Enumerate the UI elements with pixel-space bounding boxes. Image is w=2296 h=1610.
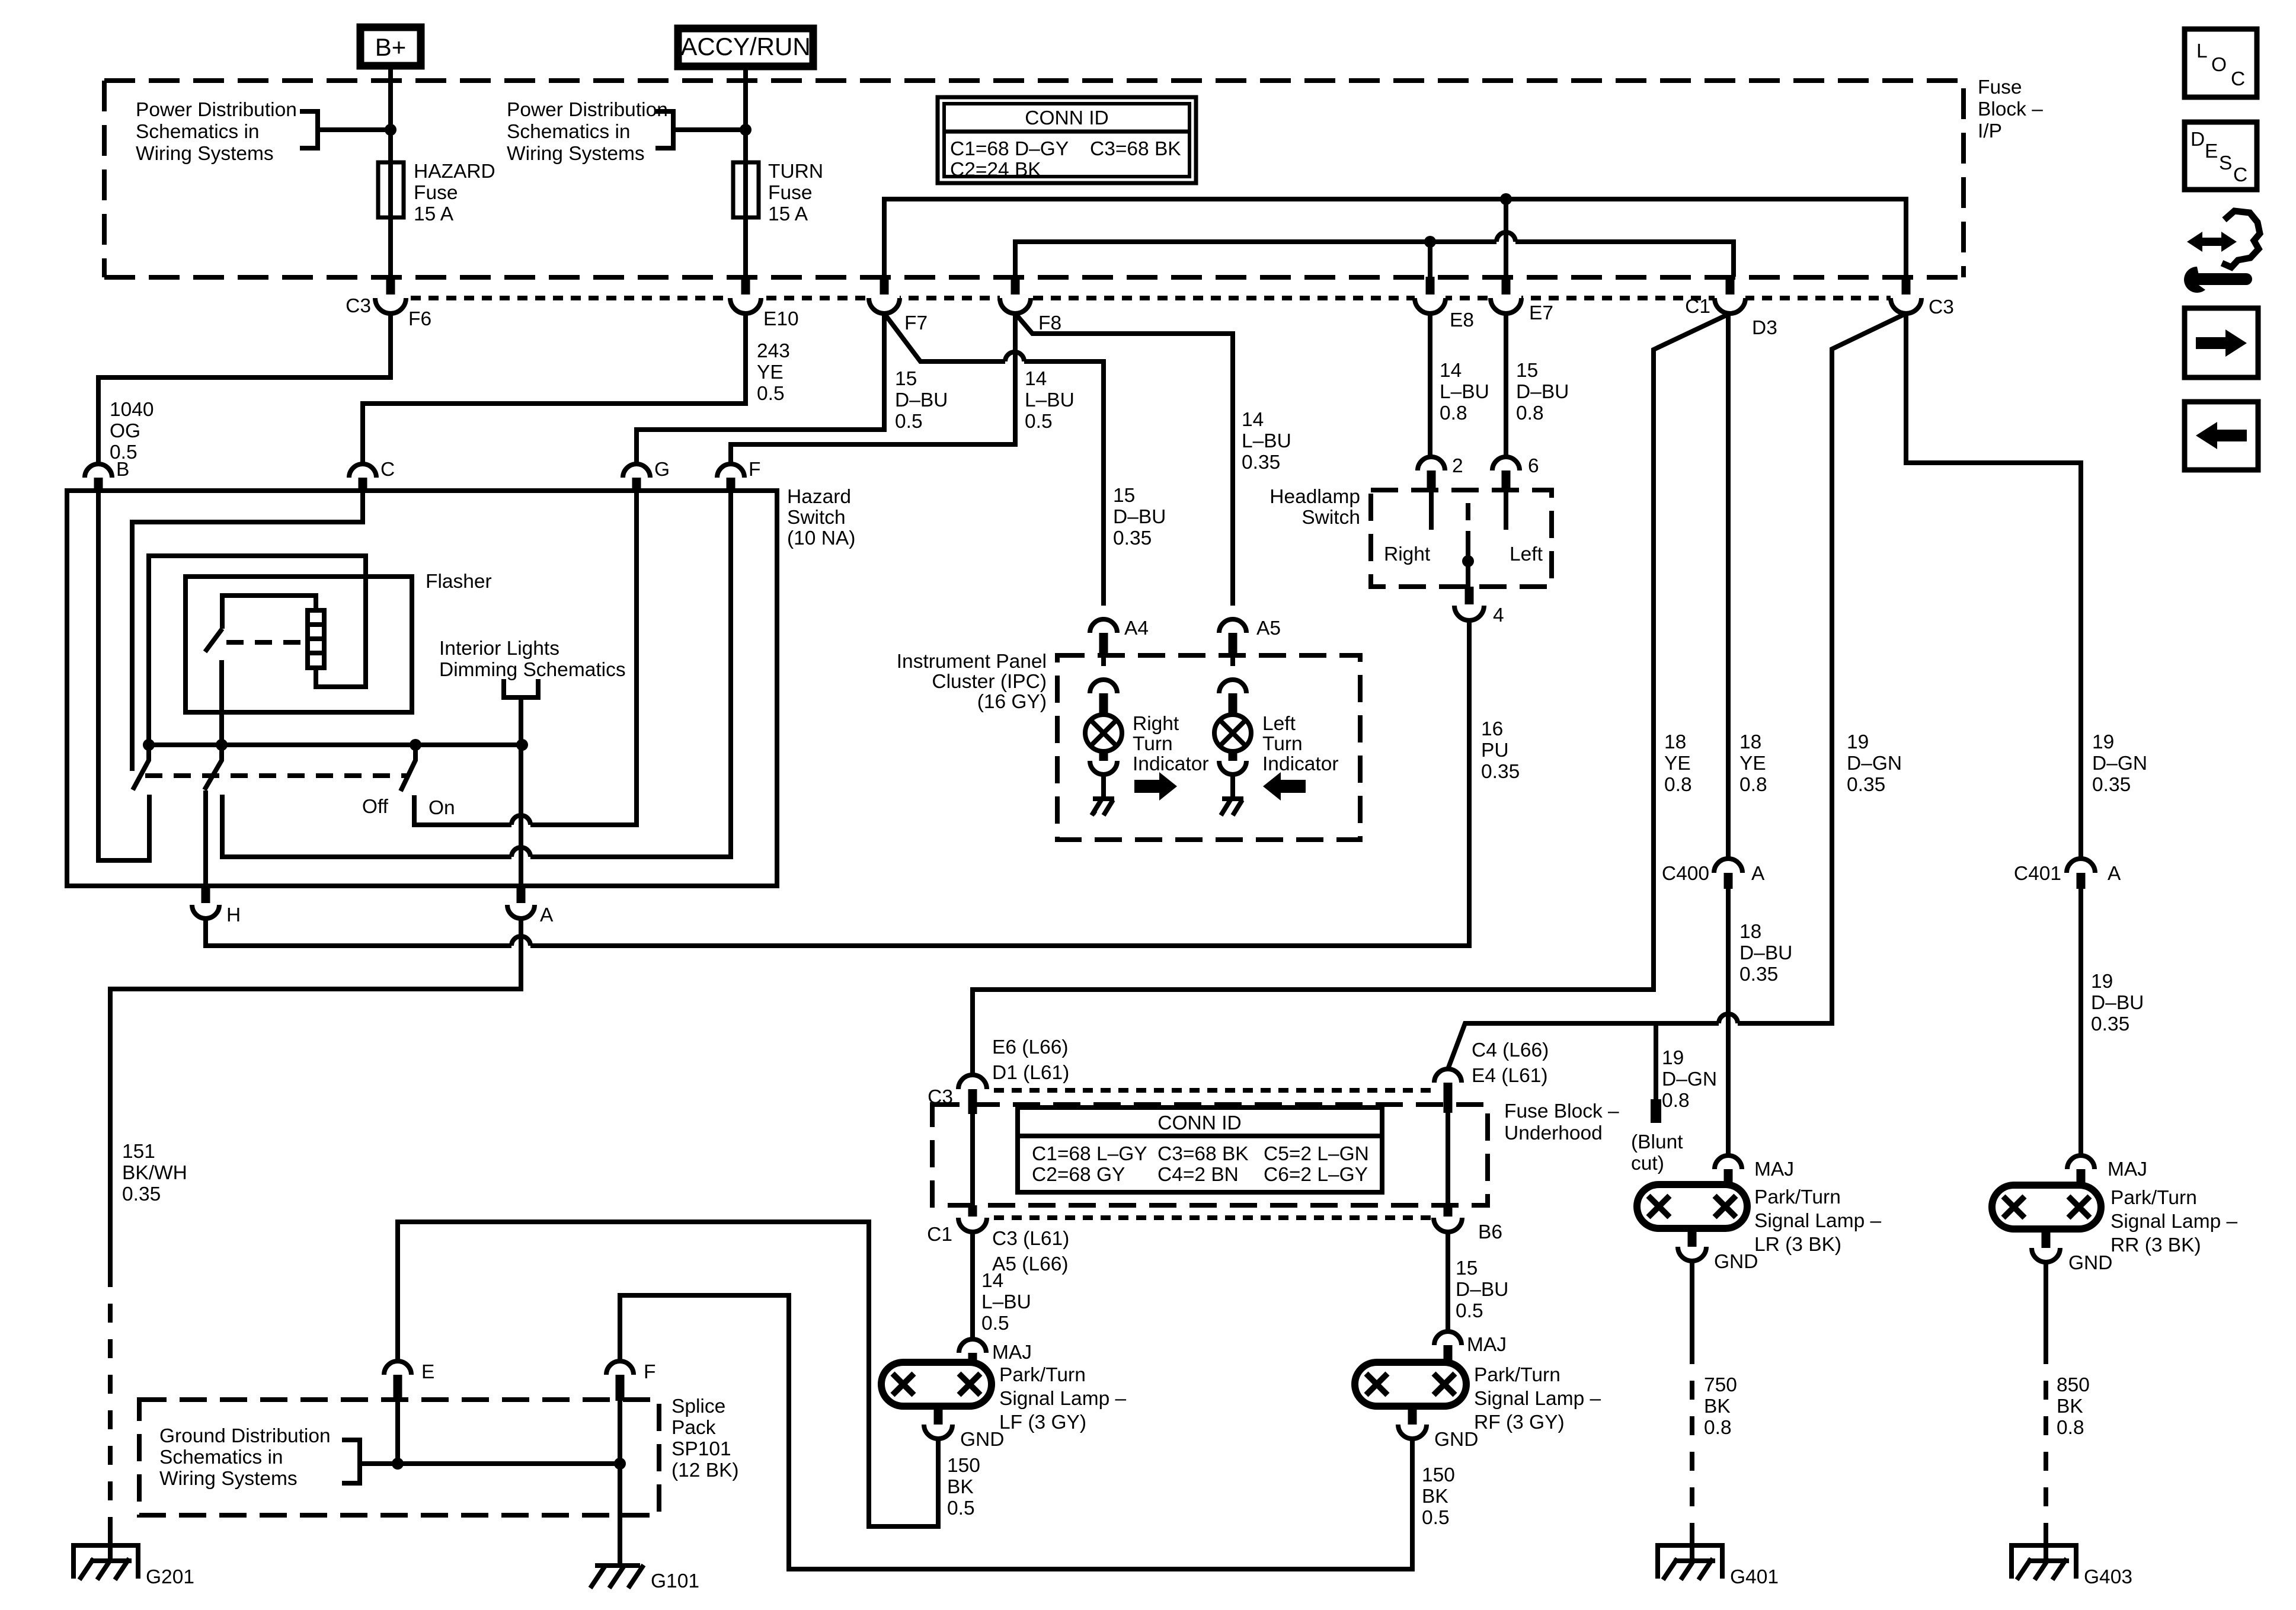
svg-text:0.5: 0.5 [895, 411, 923, 433]
connector C3 underhood [958, 1075, 987, 1114]
ground G403 [2012, 1545, 2076, 1580]
hazard fuse F1 15A [378, 162, 404, 217]
svg-text:C3=68 BK: C3=68 BK [1090, 138, 1181, 160]
connector C [349, 464, 376, 491]
svg-text:(12 BK): (12 BK) [671, 1459, 739, 1481]
wire E8 drop [1428, 242, 1432, 277]
svg-text:2: 2 [1452, 455, 1463, 477]
svg-text:GND: GND [1434, 1429, 1478, 1451]
svg-text:F8: F8 [1038, 312, 1061, 334]
park/turn signal lamp RR [1992, 1185, 2101, 1229]
wire C401 to RR MAJ [2078, 889, 2083, 1156]
svg-text:G403: G403 [2084, 1566, 2132, 1588]
svg-text:Flasher: Flasher [426, 571, 492, 593]
park/turn signal lamp RF [1355, 1362, 1466, 1406]
svg-text:Fuse Block –: Fuse Block – [1504, 1100, 1619, 1122]
svg-text:15 A: 15 A [768, 203, 808, 225]
flasher relay blade [205, 629, 222, 652]
connector A5 [1219, 619, 1246, 655]
svg-text:0.35: 0.35 [1242, 452, 1280, 473]
switch linkage dashed [145, 773, 409, 778]
ground left indicator [1221, 799, 1243, 815]
svg-text:BK/WH: BK/WH [122, 1162, 187, 1184]
svg-text:F7: F7 [904, 312, 928, 334]
svg-text:YE: YE [1664, 753, 1691, 774]
svg-text:E10: E10 [763, 308, 799, 330]
svg-text:Indicator: Indicator [1133, 753, 1209, 775]
connector GND RF [1398, 1406, 1427, 1439]
svg-text:LF (3 GY): LF (3 GY) [999, 1411, 1086, 1433]
svg-text:(Blunt: (Blunt [1631, 1131, 1683, 1153]
svg-text:0.5: 0.5 [947, 1497, 975, 1519]
svg-text:(16 GY): (16 GY) [977, 691, 1047, 713]
ground G101 [590, 1565, 644, 1588]
svg-text:O: O [2211, 54, 2227, 76]
svg-text:Schematics in: Schematics in [159, 1446, 283, 1468]
ground right indicator [1092, 799, 1114, 815]
svg-text:D–BU: D–BU [1516, 381, 1569, 403]
svg-text:15: 15 [895, 368, 917, 390]
svg-text:750: 750 [1704, 1374, 1737, 1396]
connector B6 underhood [1434, 1205, 1462, 1232]
connector B [85, 464, 112, 491]
wire pin2 inside [1429, 490, 1434, 530]
svg-text:E4 (L61): E4 (L61) [1472, 1065, 1548, 1087]
connector MAJ RF [1434, 1331, 1462, 1363]
right turn indicator lamp [1085, 655, 1122, 799]
svg-text:C2=24 BK: C2=24 BK [950, 159, 1041, 181]
svg-text:Wiring Systems: Wiring Systems [159, 1468, 298, 1490]
svg-text:TURN: TURN [768, 161, 823, 183]
svg-text:Cluster (IPC): Cluster (IPC) [932, 671, 1047, 693]
pole2 blade and H wire [204, 745, 222, 790]
connector F [717, 464, 744, 491]
svg-text:L–BU: L–BU [1242, 430, 1291, 452]
svg-text:C1: C1 [1685, 296, 1710, 318]
svg-text:F: F [644, 1361, 655, 1383]
svg-text:Power Distribution: Power Distribution [507, 99, 668, 121]
svg-text:Hazard: Hazard [787, 486, 851, 508]
B+ terminal box [360, 27, 421, 66]
svg-text:0.8: 0.8 [1440, 402, 1467, 424]
wire Y2 net F8-E8-D3 [1015, 242, 1734, 277]
flasher coil [308, 610, 324, 668]
svg-text:0.5: 0.5 [1025, 411, 1053, 433]
svg-text:CONN ID: CONN ID [1025, 107, 1108, 129]
connector C3/F6 [375, 277, 406, 313]
node F splice [614, 1458, 626, 1470]
svg-text:C401: C401 [2014, 863, 2061, 885]
fuse block I/P dashed box [104, 81, 1964, 277]
connector MAJ RR [2067, 1156, 2094, 1186]
svg-text:L–BU: L–BU [1025, 389, 1075, 411]
svg-text:BK: BK [947, 1476, 974, 1498]
flasher armature dashed link [226, 640, 308, 645]
svg-text:C3=68 BK: C3=68 BK [1157, 1143, 1249, 1165]
svg-text:A5 (L66): A5 (L66) [992, 1253, 1069, 1275]
wire D3 to C400 [1726, 313, 1731, 859]
svg-text:HAZARD: HAZARD [414, 161, 495, 183]
svg-text:14: 14 [981, 1270, 1003, 1292]
svg-text:Park/Turn: Park/Turn [2110, 1187, 2197, 1209]
svg-text:OG: OG [110, 420, 140, 442]
connector A [507, 886, 535, 918]
CONN ID table I/P [938, 97, 1196, 183]
svg-text:0.35: 0.35 [2091, 1013, 2129, 1035]
svg-text:Switch: Switch [787, 507, 846, 529]
svg-text:0.8: 0.8 [1662, 1090, 1690, 1112]
left arrow symbol [1263, 772, 1306, 801]
svg-text:15 A: 15 A [414, 203, 454, 225]
svg-text:GND: GND [960, 1429, 1004, 1451]
svg-text:18: 18 [1664, 731, 1686, 753]
svg-text:C5=2 L–GN: C5=2 L–GN [1264, 1143, 1369, 1165]
wire B inside to pole1 contact [98, 491, 149, 860]
wire F inside splice to G101 [618, 1401, 622, 1566]
connector GND RR [2032, 1229, 2060, 1262]
pole2 fixed contact to F [222, 491, 731, 857]
wire inside underhood C4 to B6 [1446, 1113, 1450, 1205]
svg-text:Right: Right [1133, 713, 1179, 735]
CONN ID table underhood [1018, 1108, 1382, 1192]
flasher coil return to bus [149, 556, 366, 745]
node junction ACCY [740, 124, 752, 136]
svg-text:19: 19 [2091, 971, 2113, 993]
connector 6 [1492, 457, 1520, 490]
wire F8 to hazard switch F [731, 313, 1015, 464]
wire C400 to LR MAJ [1726, 889, 1731, 1156]
flasher box [186, 577, 412, 712]
svg-text:18: 18 [1739, 731, 1761, 753]
wire hop over E7 [1496, 232, 1515, 242]
svg-text:PU: PU [1481, 740, 1509, 761]
svg-text:C1=68 L–GY: C1=68 L–GY [1032, 1143, 1147, 1165]
svg-text:Underhood: Underhood [1504, 1122, 1603, 1144]
wire C3 diagonal to 19 D-GN net [1448, 313, 1906, 1069]
svg-text:C3 (L61): C3 (L61) [992, 1228, 1069, 1250]
svg-text:B+: B+ [375, 33, 407, 61]
wire B6 to RF MAJ [1446, 1232, 1450, 1331]
splice bus wire [362, 1461, 620, 1466]
svg-text:L: L [2196, 40, 2208, 62]
left turn indicator lamp [1214, 655, 1251, 799]
wire H to headlamp pin4 16 PU [206, 620, 1469, 946]
svg-text:Indicator: Indicator [1262, 753, 1339, 775]
svg-text:C4 (L66): C4 (L66) [1472, 1039, 1549, 1061]
svg-text:Wiring Systems: Wiring Systems [136, 143, 274, 165]
svg-text:G: G [654, 459, 670, 481]
blunt cut stub [1654, 1023, 1658, 1100]
svg-text:C1=68 D–GY: C1=68 D–GY [950, 138, 1069, 160]
svg-text:F6: F6 [408, 308, 431, 330]
svg-text:D–BU: D–BU [1739, 942, 1792, 964]
wire pin6 inside [1504, 490, 1508, 530]
ground distribution bracket [342, 1440, 379, 1483]
underhood bottom face dotted [958, 1215, 1462, 1220]
ACCY/RUN terminal box [678, 28, 813, 66]
svg-text:Schematics in: Schematics in [507, 121, 631, 143]
connector 4 [1454, 587, 1484, 620]
headlamp wiper [1466, 503, 1470, 520]
wire C inside to pole1 feed [132, 491, 363, 771]
svg-text:Turn: Turn [1262, 733, 1303, 755]
svg-text:LR (3 BK): LR (3 BK) [1754, 1234, 1841, 1256]
svg-text:19: 19 [1662, 1047, 1684, 1069]
svg-text:D–GN: D–GN [2092, 753, 2147, 774]
IPC dashed box [1057, 655, 1360, 840]
connector C4/E4 underhood [1434, 1069, 1462, 1113]
wire F7 diagonal to A4 [884, 313, 1104, 606]
svg-text:Dimming Schematics: Dimming Schematics [439, 659, 626, 681]
svg-text:150: 150 [1422, 1464, 1455, 1486]
pole3 On contact to G [414, 491, 637, 825]
svg-text:0.35: 0.35 [122, 1183, 161, 1205]
pole1 blade [133, 745, 149, 790]
svg-text:L–BU: L–BU [1440, 381, 1489, 403]
svg-text:Signal Lamp –: Signal Lamp – [999, 1388, 1127, 1410]
svg-text:RR (3 BK): RR (3 BK) [2110, 1234, 2201, 1256]
svg-text:CONN ID: CONN ID [1157, 1112, 1241, 1134]
svg-text:(10 NA): (10 NA) [787, 527, 855, 549]
wire E10 to hazard switch C [363, 313, 746, 464]
connector face dotted line [375, 296, 1921, 300]
svg-text:0.8: 0.8 [1704, 1417, 1732, 1439]
underhood top face dotted [958, 1088, 1462, 1093]
svg-text:S: S [2219, 152, 2232, 174]
svg-text:0.5: 0.5 [1456, 1300, 1483, 1322]
icon right arrow box [2185, 308, 2258, 377]
svg-text:19: 19 [2092, 731, 2114, 753]
hazard switch box [67, 491, 777, 886]
connector A4 [1090, 619, 1117, 655]
svg-text:A5: A5 [1256, 617, 1281, 639]
svg-text:Instrument Panel: Instrument Panel [897, 651, 1047, 673]
wire E inside splice [395, 1401, 400, 1464]
svg-text:D3: D3 [1752, 317, 1777, 339]
svg-text:0.35: 0.35 [1847, 774, 1885, 796]
svg-text:SP101: SP101 [671, 1438, 731, 1460]
svg-text:Right: Right [1384, 543, 1431, 565]
svg-text:1040: 1040 [110, 399, 154, 421]
svg-text:MAJ: MAJ [1467, 1334, 1507, 1356]
svg-text:H: H [226, 904, 241, 926]
svg-text:Splice: Splice [671, 1395, 725, 1417]
svg-text:D–BU: D–BU [1456, 1279, 1508, 1301]
svg-text:15: 15 [1113, 485, 1135, 507]
svg-text:C3: C3 [346, 295, 371, 317]
svg-text:E7: E7 [1529, 302, 1553, 324]
svg-text:0.5: 0.5 [757, 383, 785, 405]
svg-text:Ground Distribution: Ground Distribution [159, 1425, 331, 1447]
svg-text:D: D [2191, 129, 2205, 151]
svg-text:14: 14 [1025, 368, 1047, 390]
svg-text:G201: G201 [146, 1566, 194, 1588]
right arrow symbol [1134, 772, 1177, 801]
svg-text:C1: C1 [927, 1224, 952, 1246]
connector C3 right [1891, 277, 1921, 313]
connector C400 A [1714, 859, 1742, 889]
svg-text:A: A [1751, 863, 1765, 885]
connector E7 [1491, 277, 1521, 313]
flasher contact wire down to bus [219, 660, 224, 745]
fuse block underhood dashed box [932, 1105, 1488, 1205]
svg-text:ACCY/RUN: ACCY/RUN [680, 33, 810, 60]
wire C3 straight to C401 [1906, 313, 2081, 859]
turn fuse F2 15A [733, 162, 759, 217]
svg-text:Wiring Systems: Wiring Systems [507, 143, 645, 165]
svg-text:14: 14 [1242, 409, 1264, 431]
ground G401 [1658, 1545, 1722, 1580]
connector MAJ LF [959, 1339, 986, 1363]
headlamp switch box [1371, 490, 1552, 587]
svg-text:GND: GND [1714, 1251, 1758, 1273]
svg-text:A: A [2108, 863, 2121, 885]
icon wrench/arrow [2184, 211, 2260, 293]
wire LR to G401 750 BK [1690, 1261, 1694, 1345]
svg-text:Block –: Block – [1978, 98, 2043, 120]
svg-text:D–GN: D–GN [1662, 1068, 1717, 1090]
svg-text:BK: BK [2057, 1395, 2083, 1417]
svg-text:Interior Lights: Interior Lights [439, 638, 559, 660]
icon DESC box [2185, 122, 2257, 190]
connector E8 [1415, 277, 1446, 313]
wire A to G201 run 151 BK/WH [110, 918, 521, 1268]
svg-text:Left: Left [1262, 713, 1296, 735]
connector C1 underhood [958, 1205, 987, 1232]
wire B+ to fuse to F6 [388, 69, 393, 277]
flasher relay top wire [222, 596, 316, 629]
svg-text:0.35: 0.35 [1481, 761, 1520, 783]
svg-text:D–BU: D–BU [2091, 992, 2144, 1014]
svg-text:C6=2 L–GY: C6=2 L–GY [1264, 1164, 1368, 1186]
wire C1 to LF MAJ [970, 1232, 975, 1339]
svg-text:C2=68 GY: C2=68 GY [1032, 1164, 1125, 1186]
park/turn signal lamp LR [1637, 1185, 1747, 1228]
svg-text:Signal Lamp –: Signal Lamp – [2110, 1211, 2238, 1233]
svg-text:850: 850 [2057, 1374, 2090, 1396]
svg-text:19: 19 [1847, 731, 1869, 753]
connector C1/D3 [1715, 277, 1745, 313]
connector F splice [606, 1361, 634, 1401]
connector E splice [384, 1361, 411, 1401]
svg-text:Fuse: Fuse [1978, 76, 2022, 98]
svg-text:C: C [2231, 68, 2245, 90]
pole3 blade [401, 745, 415, 791]
connector GND LR [1678, 1228, 1706, 1261]
ground G201 [73, 1545, 138, 1580]
svg-text:A4: A4 [1124, 617, 1149, 639]
svg-text:Pack: Pack [671, 1417, 716, 1439]
svg-text:0.35: 0.35 [2092, 774, 2131, 796]
wire Y1 net F7-E7-C3 [884, 199, 1906, 277]
wire inside underhood C3 to C1 [970, 1114, 975, 1205]
svg-text:F: F [749, 459, 760, 481]
wire E7 drop [1504, 199, 1508, 277]
svg-text:15: 15 [1516, 360, 1538, 382]
svg-text:MAJ: MAJ [2108, 1158, 2147, 1180]
svg-text:16: 16 [1481, 718, 1503, 740]
svg-text:0.8: 0.8 [1739, 774, 1767, 796]
svg-text:0.8: 0.8 [2057, 1417, 2084, 1439]
svg-text:C4=2 BN: C4=2 BN [1157, 1164, 1239, 1186]
svg-text:C3: C3 [1929, 296, 1954, 318]
svg-text:On: On [428, 797, 455, 819]
wire E7 to headlamp pin 6 [1504, 313, 1508, 458]
connector GND LF [924, 1406, 952, 1439]
connector G [623, 464, 650, 491]
svg-text:Left: Left [1510, 543, 1543, 565]
svg-text:Park/Turn: Park/Turn [1474, 1364, 1560, 1386]
svg-text:0.35: 0.35 [1113, 527, 1152, 549]
wire F6 to hazard switch B [98, 313, 391, 464]
wire ACCY/RUN to turn fuse to E10 [743, 70, 748, 277]
svg-text:Turn: Turn [1133, 733, 1173, 755]
svg-text:14: 14 [1440, 360, 1462, 382]
svg-text:Headlamp: Headlamp [1269, 486, 1360, 508]
wire interior bus to A [519, 745, 523, 886]
svg-text:B: B [116, 459, 129, 481]
svg-text:GND: GND [2068, 1252, 2112, 1274]
park/turn signal lamp LF [881, 1362, 992, 1406]
svg-text:RF (3 GY): RF (3 GY) [1474, 1411, 1565, 1433]
node junction B+ [385, 124, 396, 136]
svg-text:Schematics in: Schematics in [136, 121, 260, 143]
svg-text:0.8: 0.8 [1664, 774, 1692, 796]
svg-text:E6 (L66): E6 (L66) [992, 1036, 1069, 1058]
svg-text:cut): cut) [1631, 1153, 1664, 1174]
svg-text:D1 (L61): D1 (L61) [992, 1062, 1069, 1084]
svg-text:D–GN: D–GN [1847, 753, 1902, 774]
svg-text:MAJ: MAJ [1754, 1158, 1794, 1180]
icon LOC box [2185, 29, 2257, 97]
interior lights bracket [504, 679, 538, 745]
hazard switch bus [149, 742, 522, 747]
svg-text:0.5: 0.5 [981, 1313, 1009, 1334]
svg-text:I/P: I/P [1978, 120, 2002, 142]
svg-text:D–BU: D–BU [1113, 506, 1166, 528]
svg-text:C3: C3 [928, 1086, 953, 1108]
svg-text:A: A [540, 904, 554, 926]
svg-text:18: 18 [1739, 921, 1761, 943]
wire RF GND return to splice F [620, 1295, 1412, 1569]
wire E8 to headlamp pin 2 [1428, 313, 1432, 458]
node E splice [392, 1458, 404, 1470]
svg-text:YE: YE [757, 361, 784, 383]
svg-text:BK: BK [1704, 1395, 1731, 1417]
svg-text:0.8: 0.8 [1516, 402, 1544, 424]
svg-text:BK: BK [1422, 1486, 1448, 1507]
connector F7 [869, 277, 900, 313]
svg-text:G101: G101 [651, 1570, 699, 1592]
svg-text:Park/Turn: Park/Turn [1754, 1186, 1841, 1208]
connector H [192, 886, 219, 918]
svg-text:G401: G401 [1730, 1566, 1779, 1588]
svg-text:E: E [421, 1361, 434, 1383]
svg-text:0.35: 0.35 [1739, 964, 1778, 985]
wire hop over D3 run [1719, 1014, 1738, 1023]
svg-text:243: 243 [757, 340, 790, 362]
connector F8 [1000, 277, 1031, 313]
bracket 1 [300, 111, 391, 148]
wire F7 to hazard switch G [637, 313, 884, 464]
svg-text:B6: B6 [1478, 1221, 1502, 1243]
svg-text:D–BU: D–BU [895, 389, 948, 411]
svg-text:Off: Off [362, 796, 389, 818]
svg-text:L–BU: L–BU [981, 1291, 1031, 1313]
wire F8 diagonal to A5 [1015, 313, 1233, 606]
wire C1 diagonal to underhood C3 [973, 313, 1730, 1074]
svg-text:Power Distribution: Power Distribution [136, 99, 297, 121]
